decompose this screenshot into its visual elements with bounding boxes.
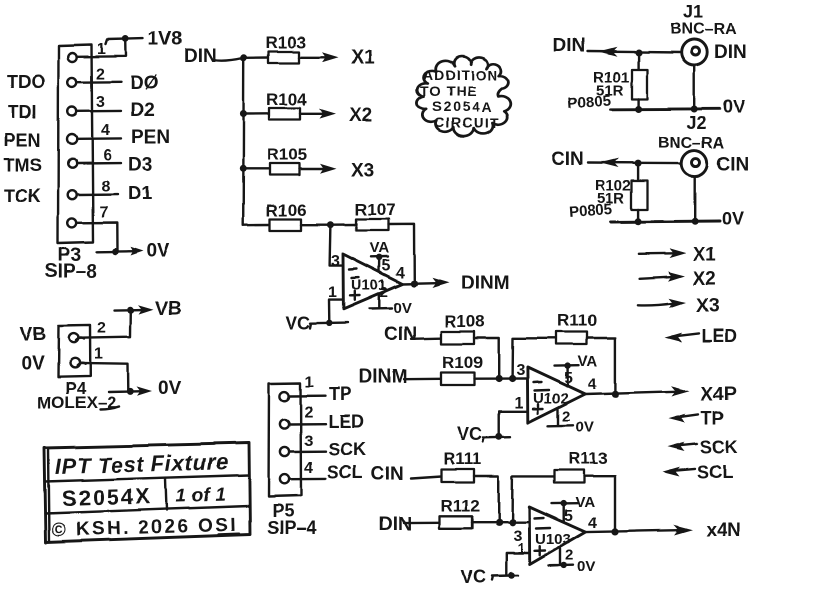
- svg-text:CIN: CIN: [371, 464, 404, 485]
- svg-text:CIN: CIN: [384, 324, 417, 345]
- svg-text:DIN: DIN: [184, 46, 217, 67]
- wire bus to R104: [243, 113, 269, 116]
- svg-text:R108: R108: [444, 312, 485, 331]
- svg-text:TP: TP: [701, 408, 724, 428]
- svg-text:R105: R105: [267, 145, 308, 164]
- resistor R112: [439, 496, 480, 528]
- svg-text:R113: R113: [568, 449, 608, 468]
- resistor R113: [554, 449, 608, 483]
- wire R106 to node A: [301, 223, 330, 225]
- wire R113 to U103 output: [584, 476, 615, 532]
- node 0V arrow (P4): [109, 378, 182, 399]
- node junction J1-0V: [691, 106, 698, 113]
- svg-text:2: 2: [96, 66, 105, 83]
- P5 pin 4 wire: [290, 478, 326, 481]
- svg-text:4: 4: [588, 376, 597, 393]
- wire junction down to R101: [637, 53, 639, 70]
- wire J2 shield down to 0V rail: [694, 177, 696, 222]
- svg-text:VB: VB: [20, 324, 46, 345]
- wire J2 to CIN with arrow: [588, 159, 682, 168]
- svg-text:VA: VA: [578, 353, 598, 370]
- svg-text:D1: D1: [128, 183, 153, 204]
- resistor R107: [355, 200, 396, 231]
- svg-text:R103: R103: [265, 33, 306, 52]
- svg-text:3: 3: [331, 253, 340, 270]
- node X3 output arrow: [638, 296, 719, 317]
- ground 0V (U102 pin 2): [548, 409, 594, 436]
- svg-text:1: 1: [514, 395, 523, 412]
- wire node A to R107: [330, 223, 356, 226]
- svg-text:X2: X2: [349, 105, 372, 126]
- wire DIN to bus: [213, 58, 244, 61]
- svg-text:R104: R104: [266, 90, 307, 109]
- svg-text:3: 3: [516, 362, 525, 379]
- power VC (U102): [457, 424, 510, 444]
- svg-text:0V: 0V: [158, 378, 182, 399]
- wire DINM to R109: [404, 378, 441, 381]
- resistor R103: [265, 33, 306, 63]
- node U102 output junction: [612, 390, 619, 397]
- svg-text:SCK: SCK: [700, 437, 738, 457]
- node X2 output arrow: [640, 269, 717, 290]
- node X1 output arrow: [638, 245, 716, 266]
- svg-text:LED: LED: [701, 326, 737, 346]
- svg-text:P0805: P0805: [568, 201, 612, 221]
- wire R102 to 0V rail: [637, 210, 639, 222]
- P5 pin 2 wire: [290, 423, 326, 426]
- svg-text:VA: VA: [370, 240, 390, 257]
- svg-text:BNC–RA: BNC–RA: [670, 21, 737, 38]
- P3 pin 3 wire: [77, 110, 121, 113]
- svg-text:TP: TP: [329, 384, 352, 404]
- svg-text:D2: D2: [130, 100, 154, 121]
- svg-text:LED: LED: [328, 412, 364, 432]
- U102 pin 1 wire: [499, 411, 528, 436]
- connector J1 BNC body: [682, 40, 708, 66]
- P5 pin 1 wire: [290, 395, 326, 398]
- svg-text:J1: J1: [683, 2, 703, 22]
- P4 pin 1 wire to 0V: [80, 363, 129, 391]
- svg-text:TO THE: TO THE: [420, 83, 477, 99]
- svg-text:X3: X3: [351, 160, 374, 181]
- ground 0V (U103 pin 2): [549, 549, 596, 576]
- svg-text:VA: VA: [575, 494, 595, 511]
- svg-text:DIN: DIN: [379, 514, 412, 535]
- P3 pin 2 wire: [77, 81, 121, 84]
- svg-text:R107: R107: [355, 200, 396, 219]
- svg-text:SCL: SCL: [327, 463, 363, 483]
- wire R107 to output node: [389, 224, 415, 283]
- svg-text:3: 3: [304, 433, 313, 450]
- wire R110 to U102 output: [587, 338, 615, 394]
- svg-text:CIRCUIT: CIRCUIT: [434, 115, 500, 131]
- P3 pin 8 wire: [77, 193, 118, 196]
- wire vertical bus: [242, 58, 245, 225]
- svg-text:DINM: DINM: [359, 367, 408, 388]
- svg-text:1: 1: [517, 540, 525, 557]
- node junction bus-X3: [240, 165, 247, 172]
- svg-text:ADDITION: ADDITION: [423, 67, 499, 83]
- power VA (U101): [370, 240, 390, 273]
- node junction bus-X2: [240, 111, 247, 118]
- svg-text:S2054X: S2054X: [61, 483, 152, 511]
- P5 pin 3 wire: [290, 451, 326, 454]
- svg-text:VC: VC: [461, 567, 486, 587]
- wire junction down to R102: [637, 164, 639, 181]
- node U103 output junction: [611, 528, 618, 535]
- node 1V8: [106, 29, 182, 50]
- svg-text:5: 5: [564, 370, 573, 387]
- svg-text:1: 1: [305, 374, 314, 391]
- wire node B up to R110: [512, 338, 556, 378]
- resistor R101: [567, 69, 647, 112]
- wire R112 to node C: [472, 521, 529, 523]
- wire DIN to R112: [404, 521, 439, 524]
- node SCK input arrow: [668, 437, 739, 457]
- node B junction dots: [495, 375, 502, 382]
- svg-text:VC: VC: [457, 424, 482, 444]
- svg-text:PEN: PEN: [131, 127, 170, 148]
- wire bus to R105: [243, 168, 270, 170]
- wire U102 output to X4P: [585, 386, 690, 396]
- svg-text:S2054A: S2054A: [432, 99, 493, 115]
- node junction R101-0V: [635, 106, 642, 113]
- svg-text:SCL: SCL: [697, 462, 733, 482]
- label MOLEX-2: [37, 393, 119, 412]
- connector P4 MOLEX-2 body: [58, 325, 90, 377]
- connector J2 BNC body: [682, 151, 708, 177]
- svg-text:IPT Test Fixture: IPT Test Fixture: [54, 449, 228, 479]
- svg-text:1: 1: [97, 41, 106, 58]
- P3 pin 7 wire down to 0V: [77, 223, 117, 252]
- resistor R104: [266, 90, 307, 120]
- svg-text:2: 2: [562, 408, 570, 425]
- svg-text:2: 2: [565, 547, 573, 564]
- svg-text:CIN: CIN: [717, 154, 750, 175]
- svg-text:0V: 0V: [146, 241, 170, 262]
- node junction J2-R102: [635, 160, 642, 167]
- svg-text:SIP–8: SIP–8: [45, 261, 97, 282]
- node TP input arrow: [669, 408, 725, 428]
- node VB arrow: [115, 299, 182, 320]
- svg-text:R112: R112: [440, 496, 480, 515]
- note cloud ADDITION TO THE S2054A CIRCUIT: [417, 57, 511, 137]
- svg-text:CIN: CIN: [551, 149, 584, 170]
- svg-text:X3: X3: [696, 296, 719, 317]
- resistor R106: [266, 201, 307, 231]
- node LED input arrow: [665, 326, 738, 346]
- node junction J1-R101: [635, 49, 642, 56]
- connector P5 SIP-4 body: [269, 383, 302, 497]
- svg-text:X2: X2: [693, 269, 716, 290]
- resistor R102: [568, 178, 647, 221]
- svg-text:8: 8: [101, 178, 110, 195]
- svg-text:TMS: TMS: [4, 155, 42, 175]
- svg-text:TDO: TDO: [7, 72, 45, 92]
- svg-text:R109: R109: [442, 353, 483, 372]
- svg-text:0V: 0V: [21, 353, 45, 374]
- svg-text:0V: 0V: [723, 97, 745, 117]
- svg-text:DØ: DØ: [130, 73, 159, 94]
- wire R103 to X1 arrow: [299, 52, 339, 62]
- label D0: [130, 73, 159, 94]
- node junction bus-X1: [240, 54, 247, 61]
- resistor R108: [441, 312, 485, 344]
- svg-text:P0805: P0805: [567, 92, 611, 112]
- svg-text:5: 5: [564, 508, 573, 525]
- svg-text:4: 4: [101, 122, 110, 139]
- power VA (U102): [554, 353, 598, 386]
- svg-text:2: 2: [380, 284, 388, 301]
- resistor R109: [441, 353, 483, 385]
- node output U101 junction: [411, 280, 418, 287]
- svg-text:PEN: PEN: [4, 130, 41, 150]
- svg-text:x4N: x4N: [706, 520, 741, 541]
- connector P3 SIP-8 body: [58, 45, 93, 244]
- power VC (U101): [285, 313, 348, 333]
- svg-text:2: 2: [97, 320, 106, 337]
- wire CIN to R111: [411, 477, 441, 479]
- svg-text:DINM: DINM: [461, 273, 510, 294]
- wire U101 output to DINM arrow: [403, 278, 450, 288]
- svg-text:5: 5: [382, 258, 391, 275]
- svg-text:TCK: TCK: [4, 186, 41, 206]
- svg-text:VB: VB: [155, 299, 181, 320]
- op-amp U101: [343, 254, 403, 309]
- node junction J2-0V: [691, 218, 698, 225]
- op-amp U102: [527, 367, 585, 423]
- svg-text:X1: X1: [693, 245, 717, 266]
- svg-text:3: 3: [96, 94, 105, 111]
- wire bus to R103: [244, 56, 268, 59]
- wire R101 to 0V rail: [637, 99, 639, 109]
- svg-text:2: 2: [304, 404, 313, 421]
- wire U103 output to X4N: [585, 525, 692, 535]
- svg-text:SCK: SCK: [328, 440, 366, 460]
- svg-text:6: 6: [103, 147, 112, 164]
- svg-text:4: 4: [588, 515, 597, 532]
- wire CIN to R108: [411, 337, 441, 340]
- P3 pin 6 wire: [77, 161, 121, 164]
- svg-text:4: 4: [304, 460, 313, 477]
- title text copyright KSH 2026 OSI: [52, 515, 239, 541]
- resistor R105: [267, 145, 308, 175]
- node C junction dots: [495, 519, 502, 526]
- svg-text:R106: R106: [266, 201, 307, 220]
- wire R111 to node C: [474, 476, 499, 522]
- wire node C up to R113: [512, 476, 554, 522]
- svg-text:J2: J2: [687, 113, 707, 133]
- svg-text:0V: 0V: [393, 300, 411, 317]
- svg-text:X1: X1: [351, 48, 375, 69]
- wire R108 to node B: [474, 338, 499, 379]
- wire bus to R106: [243, 223, 270, 226]
- svg-text:TDI: TDI: [8, 102, 37, 122]
- wire J1 shield down to 0V rail: [694, 66, 696, 110]
- svg-text:X4P: X4P: [701, 384, 737, 405]
- wire J1 to DIN with arrow: [588, 47, 682, 56]
- wire 0V rail (J1): [611, 107, 721, 110]
- svg-text:1: 1: [94, 346, 103, 363]
- svg-text:1V8: 1V8: [148, 29, 182, 50]
- node 0V (P3): [97, 241, 170, 262]
- svg-text:7: 7: [99, 204, 108, 221]
- svg-text:BNC–RA: BNC–RA: [658, 135, 725, 152]
- svg-text:D3: D3: [128, 154, 152, 175]
- svg-text:R110: R110: [557, 311, 597, 330]
- svg-text:0V: 0V: [577, 559, 595, 576]
- wire R104 to X2 arrow: [300, 109, 336, 119]
- svg-text:SIP–4: SIP–4: [267, 518, 316, 538]
- power VC (U103): [461, 567, 518, 587]
- node SCL input arrow: [663, 462, 734, 482]
- resistor R111: [441, 449, 482, 482]
- power VA (U103): [552, 494, 595, 522]
- svg-text:DIN: DIN: [714, 42, 747, 63]
- wire node A down to U101 pin 3: [330, 225, 343, 266]
- node junction R102-0V: [635, 218, 642, 225]
- wire R105 to X3 arrow: [300, 164, 337, 174]
- svg-text:4: 4: [396, 265, 405, 282]
- svg-text:R111: R111: [443, 449, 482, 468]
- U103 pin 1 wire: [506, 553, 529, 575]
- P3 pin 1 wire to 1V8: [77, 39, 126, 57]
- ground 0V (U101 pin 2): [370, 295, 412, 318]
- op-amp U103: [529, 507, 585, 565]
- P3 pin 4 wire: [78, 137, 122, 140]
- resistor R110: [556, 311, 597, 345]
- P4 pin 2 wire to VB: [79, 310, 131, 338]
- svg-text:0V: 0V: [722, 209, 744, 229]
- U101 pin 1 wire: [329, 300, 343, 323]
- svg-text:0V: 0V: [576, 419, 594, 436]
- svg-text:VC: VC: [285, 313, 310, 333]
- wire R109 to node B: [474, 377, 527, 380]
- svg-text:1 of 1: 1 of 1: [176, 485, 226, 507]
- svg-text:DIN: DIN: [553, 36, 586, 57]
- node A junction: [327, 221, 334, 228]
- wire 0V rail (J2): [611, 221, 721, 222]
- title block frame: [45, 443, 251, 542]
